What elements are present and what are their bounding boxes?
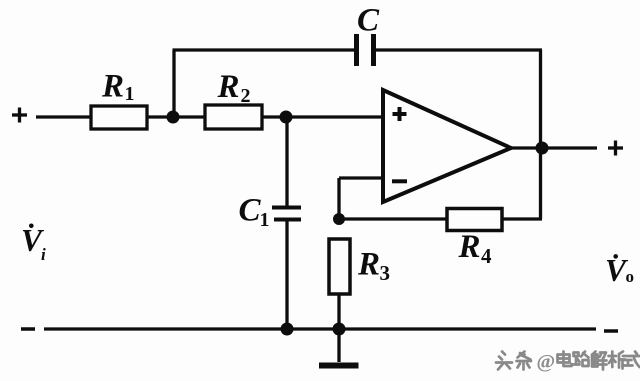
svg-text:R: R: [217, 69, 240, 105]
svg-text:C: C: [239, 193, 262, 229]
svg-text:1: 1: [260, 209, 270, 231]
svg-text:3: 3: [380, 261, 391, 285]
svg-text:1: 1: [125, 83, 135, 105]
svg-text:R: R: [458, 229, 481, 265]
svg-text:@: @: [537, 351, 556, 373]
svg-text:R: R: [101, 69, 124, 105]
svg-text:o: o: [626, 267, 635, 286]
svg-text:2: 2: [241, 85, 251, 107]
svg-text:i: i: [41, 245, 46, 264]
svg-text:R: R: [357, 247, 380, 283]
svg-text:4: 4: [481, 244, 492, 268]
svg-text:C: C: [357, 3, 380, 39]
